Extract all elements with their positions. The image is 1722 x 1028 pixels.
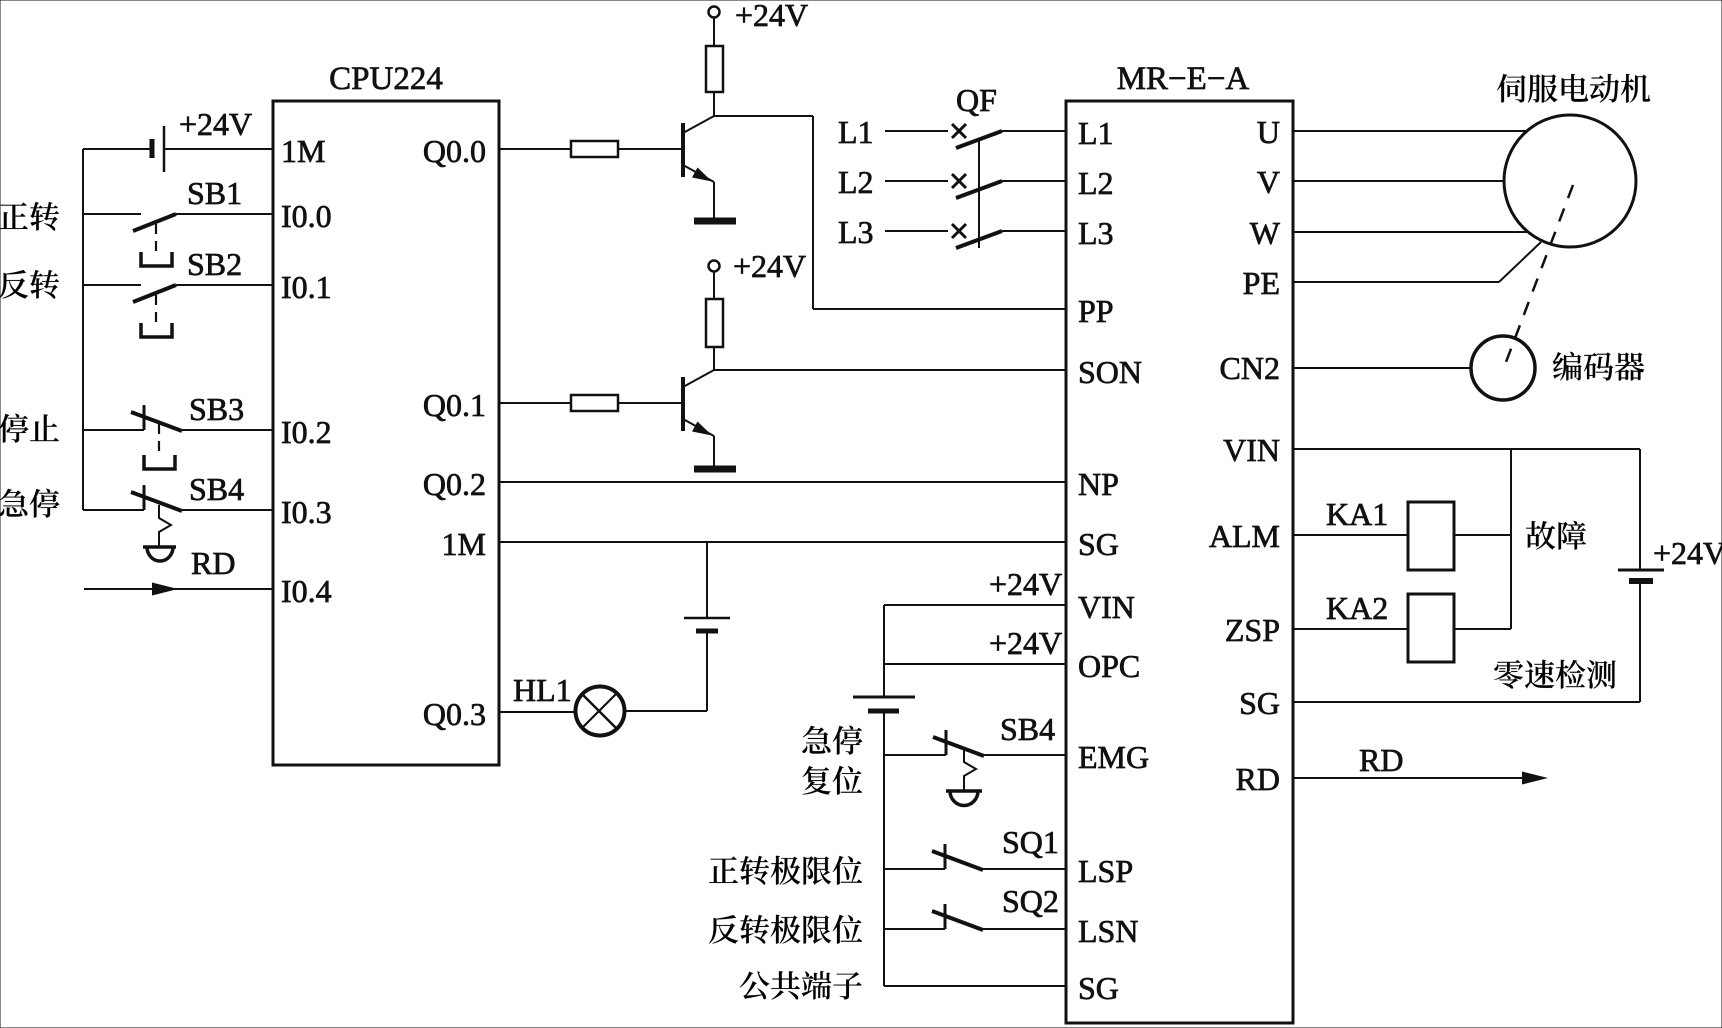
wire common SG [884, 985, 1066, 987]
resistor R4 (base) [571, 395, 618, 411]
QF trip linkage [978, 140, 980, 248]
wire OPC (+24V) [884, 663, 1066, 665]
circuit breaker QF pole L2 [885, 174, 1066, 198]
svg-text:1M: 1M [442, 526, 486, 562]
svg-text:SB2: SB2 [187, 246, 242, 282]
resistor R3 (collector) [706, 299, 723, 370]
emergency-stop reset SB4 (NC, mushroom head) [884, 730, 1066, 806]
label 急停(复位) [802, 726, 862, 755]
svg-text:ZSP: ZSP [1225, 612, 1280, 648]
+24V terminal (driver 2) [709, 261, 720, 300]
svg-text:I0.2: I0.2 [281, 414, 332, 450]
svg-text:+24V: +24V [179, 106, 252, 142]
circuit breaker QF pole L1 [885, 124, 1066, 148]
battery (input bus +24V) [853, 697, 915, 711]
svg-text:+24V: +24V [1653, 535, 1722, 571]
svg-text:I0.4: I0.4 [281, 573, 332, 609]
svg-text:L2: L2 [1078, 165, 1114, 201]
wire W [1293, 231, 1528, 233]
wire base [618, 148, 683, 150]
battery (lamp return to 1M/SG) [623, 542, 730, 711]
encoder [1471, 336, 1535, 400]
servo drive MR-E-A [1066, 101, 1293, 1023]
indicator lamp HL1 [576, 687, 625, 736]
label 反转 [0, 270, 59, 299]
motor shaft link (dashed) [1506, 185, 1573, 362]
svg-text:L3: L3 [1078, 215, 1114, 251]
svg-text:+24V: +24V [735, 0, 808, 33]
svg-text:L3: L3 [838, 214, 874, 250]
transistor V2 (NPN) [683, 370, 714, 466]
svg-text:HL1: HL1 [513, 672, 572, 708]
transistor V1 (NPN) [683, 116, 714, 218]
label 反转极限位 [709, 915, 862, 944]
svg-text:PP: PP [1078, 293, 1114, 329]
svg-text:NP: NP [1078, 466, 1119, 502]
svg-text:SQ2: SQ2 [1002, 883, 1059, 919]
wire RD out [1293, 772, 1548, 785]
svg-text:LSN: LSN [1078, 913, 1138, 949]
svg-text:RD: RD [191, 545, 235, 581]
wire VIN out [1293, 448, 1640, 450]
svg-text:L1: L1 [838, 114, 874, 150]
svg-text:SG: SG [1078, 526, 1119, 562]
svg-text:KA2: KA2 [1326, 590, 1388, 626]
svg-text:SB1: SB1 [187, 175, 242, 211]
svg-text:L1: L1 [1078, 115, 1114, 151]
wire input common bus [883, 605, 885, 986]
svg-text:+24V: +24V [989, 625, 1062, 661]
wire Q0.2 to NP [499, 481, 1066, 483]
PLC CPU224 [273, 101, 499, 765]
svg-text:U: U [1257, 114, 1280, 150]
label 伺服电动机 [1497, 74, 1650, 103]
emergency-stop pushbutton SB4 (NC, mushroom head) [83, 485, 273, 561]
wire ALM [1293, 534, 1408, 536]
svg-text:+24V: +24V [733, 248, 806, 284]
label 正转 [0, 202, 59, 231]
wire Q0.0 to base resistor [499, 148, 571, 150]
svg-text:+24V: +24V [989, 566, 1062, 602]
relay coil KA2 [1408, 594, 1511, 662]
svg-text:OPC: OPC [1078, 648, 1140, 684]
svg-text:Q0.1: Q0.1 [423, 387, 486, 423]
svg-text:V: V [1257, 164, 1280, 200]
wire CN2 [1293, 367, 1471, 369]
wire VIN (+24V) [884, 604, 1066, 606]
svg-text:Q0.0: Q0.0 [423, 133, 486, 169]
svg-text:SON: SON [1078, 354, 1142, 390]
wire collector to PP [714, 116, 1066, 309]
wire 1M to SG [499, 541, 1066, 543]
wire U [1293, 130, 1527, 132]
limit switch SQ2 (NC) [884, 904, 1066, 930]
svg-text:SQ1: SQ1 [1002, 824, 1059, 860]
pushbutton SB2 (NO) [83, 285, 273, 337]
svg-text:1M: 1M [281, 133, 325, 169]
wire KA junction [1510, 449, 1512, 629]
label 复位 [802, 766, 862, 795]
resistor R2 (base) [571, 141, 618, 157]
svg-text:Q0.3: Q0.3 [423, 696, 486, 732]
wire left supply bus [82, 149, 84, 510]
label 编码器 [1553, 352, 1645, 381]
ground (driver 2) [694, 466, 736, 473]
svg-text:MR−E−A: MR−E−A [1117, 61, 1250, 97]
svg-text:L2: L2 [838, 164, 874, 200]
wire I0.0 [82, 213, 84, 215]
+24V terminal (driver 1) [709, 7, 720, 47]
wire V [1293, 180, 1504, 182]
ground (driver 1) [694, 218, 736, 225]
relay coil KA1 [1408, 502, 1511, 570]
svg-text:EMG: EMG [1078, 739, 1149, 775]
wire ZSP [1293, 628, 1408, 630]
wire Q0.3 to lamp [499, 711, 575, 713]
svg-text:RD: RD [1359, 742, 1403, 778]
svg-text:W: W [1250, 215, 1281, 251]
svg-text:SB3: SB3 [189, 391, 244, 427]
label 急停 [0, 489, 60, 518]
circuit breaker QF pole L3 [885, 224, 1066, 248]
label 停止 [0, 414, 59, 443]
svg-text:SG: SG [1078, 970, 1119, 1006]
limit switch SQ1 (NC) [884, 844, 1066, 870]
svg-text:QF: QF [956, 82, 997, 118]
battery +24V (right) [1618, 449, 1664, 702]
label 正转极限位 [709, 856, 862, 885]
svg-text:RD: RD [1236, 761, 1280, 797]
svg-text:SB4: SB4 [189, 471, 244, 507]
servo motor M [1504, 115, 1636, 247]
label 公共端子 [740, 971, 862, 1000]
wire collector to SON [714, 369, 1066, 371]
svg-text:PE: PE [1243, 265, 1280, 301]
svg-text:SB4: SB4 [1000, 711, 1055, 747]
label 零速检测 [1494, 660, 1616, 689]
svg-text:CN2: CN2 [1220, 350, 1280, 386]
wire base 2 [618, 402, 683, 404]
svg-text:ALM: ALM [1209, 518, 1280, 554]
svg-text:KA1: KA1 [1326, 496, 1388, 532]
svg-text:SG: SG [1239, 685, 1280, 721]
svg-text:Q0.2: Q0.2 [423, 466, 486, 502]
wire PE [1293, 242, 1541, 282]
wire Q0.1 to base resistor [499, 402, 571, 404]
wire I0.4 (RD signal input) [84, 583, 273, 596]
resistor R1 (collector) [706, 46, 723, 116]
wire SG out [1293, 701, 1640, 703]
battery +24V supply (left) [83, 126, 273, 172]
svg-text:VIN: VIN [1078, 589, 1135, 625]
svg-text:I0.0: I0.0 [281, 198, 332, 234]
svg-text:VIN: VIN [1223, 432, 1280, 468]
pushbutton SB3 (NC) [83, 405, 273, 469]
svg-text:I0.3: I0.3 [281, 494, 332, 530]
svg-text:CPU224: CPU224 [329, 61, 443, 97]
pushbutton SB1 (NO) [83, 214, 273, 266]
svg-text:I0.1: I0.1 [281, 269, 332, 305]
label 故障 [1526, 521, 1586, 550]
svg-text:LSP: LSP [1078, 853, 1133, 889]
